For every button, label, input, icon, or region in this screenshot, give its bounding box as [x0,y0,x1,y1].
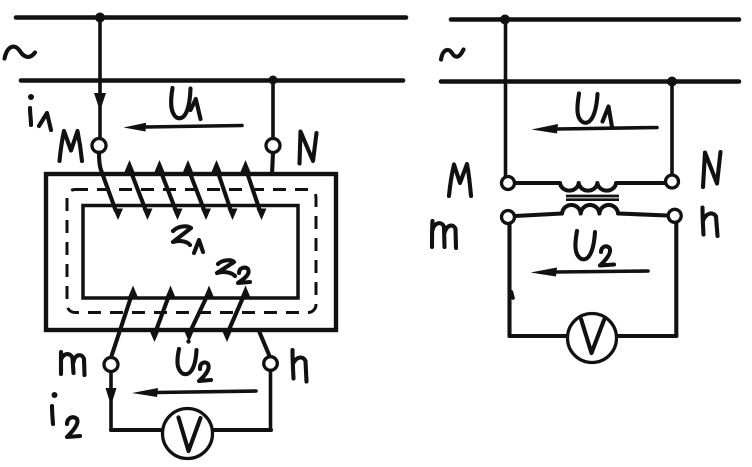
transformer T1 core [566,196,619,200]
wire bottom left segment [111,428,161,432]
wire from node N into core [272,153,273,174]
node h left [264,357,278,371]
junction on top bus right [500,15,510,25]
voltmeter V left [163,409,213,459]
label U1 left [171,88,200,119]
label U2 left [177,339,211,381]
node M right [502,177,515,190]
transformer core outer [46,174,336,330]
winding Z1 turn 6 [241,160,267,220]
wire bottom right segment [214,428,271,432]
winding Z1 turn 4 [183,160,211,220]
winding Z1 turn 5 [212,160,238,220]
wire m to bottom with current arrow i2 [106,372,117,430]
label U1 right [577,94,612,128]
label i1 [28,94,51,130]
label N left [300,132,317,164]
wire top bus right [451,17,739,22]
wire from second bus to node N left [271,80,275,138]
label Z1 [173,226,203,253]
junction on second bus left [269,76,278,85]
transformer T1 secondary coil [515,205,668,216]
node N left [266,139,280,153]
node m left [104,358,118,372]
arrow U1 left [124,123,243,132]
label m left [61,352,85,375]
winding z2 turn 2 [150,286,176,343]
wire h down [269,371,273,431]
transformer T1 primary coil [516,183,666,191]
wire m loop left [507,224,511,336]
node m right [502,211,515,224]
winding z2 turn 4 [222,286,251,343]
AC source symbol ~ right [441,50,464,60]
arrow U1 right [532,124,658,134]
voltmeter V right [568,314,617,363]
wire top bus left [16,15,406,20]
wire h loop right [674,223,678,336]
winding z2 wire to m [112,286,139,357]
transformer core lamination dashed line [67,190,316,313]
winding Z1 wire from M [99,153,123,221]
junction on top bus left [95,13,105,23]
node N right [666,175,679,188]
wire bus to node M right [504,20,508,177]
stray mark [512,292,514,298]
AC source symbol ~ left [5,47,36,59]
label U2 right [575,231,614,266]
node M left [92,139,106,153]
label m right [432,221,456,248]
arrow U2 right [531,268,649,277]
wire bus to node N right [670,82,674,175]
label N right [703,152,721,187]
wire from bus to node M with current arrow i1 [94,18,106,138]
wire second bus right [441,79,739,84]
label h left [293,350,307,382]
label h right [703,208,718,237]
wire loop bottom left [510,334,567,338]
arrow U2 left [132,388,256,397]
wire from core to node h left [259,331,270,356]
wire loop bottom right [618,334,677,338]
label M right [449,164,471,196]
winding Z1 turn 3 [155,160,183,220]
winding z2 turn 3 [184,286,214,343]
winding Z1 turn 2 [125,160,153,220]
label z2 [217,260,250,283]
label M left [60,131,83,161]
node h right [668,209,681,222]
junction on second bus right [667,77,677,87]
transformer core window inner [83,206,298,299]
wire second bus left [21,78,403,83]
label i2 [52,392,81,437]
